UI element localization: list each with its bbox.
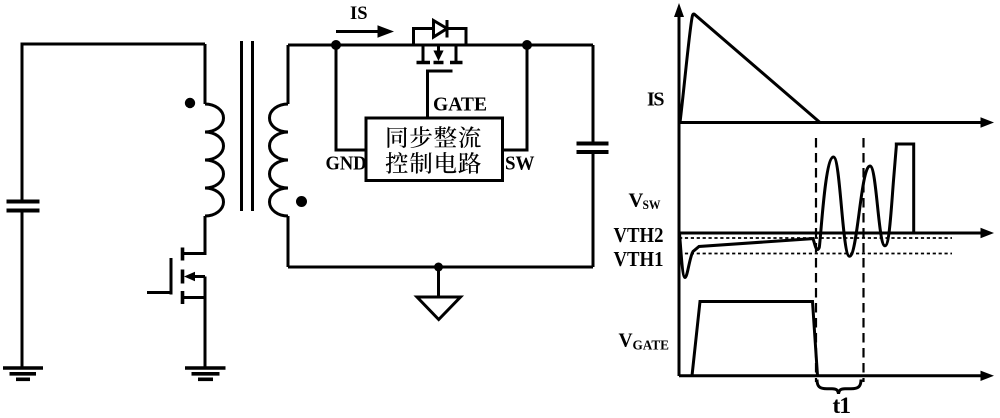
svg-text:VTH1: VTH1 — [614, 247, 664, 271]
wire primary to Q1 drain — [184, 216, 205, 254]
diode D1 cathode bar — [446, 20, 449, 38]
svg-text:V: V — [629, 189, 644, 211]
transistor Q2 right contact — [455, 45, 458, 62]
curve IS waveform — [680, 14, 820, 122]
transistor Q1 source bar — [184, 296, 205, 299]
arrowhead axis top — [674, 3, 684, 17]
wire GND pin — [336, 45, 366, 150]
node B junction right — [522, 40, 532, 50]
diode D1 risers and bypass — [414, 29, 467, 46]
transformer T1 primary winding — [205, 104, 224, 216]
svg-text:GATE: GATE — [633, 338, 670, 353]
ground Q1 source (earth) — [185, 366, 226, 370]
wire left rail lower — [21, 211, 24, 368]
line VTH1 threshold dotted — [679, 253, 952, 255]
line dashed vertical t1 left — [815, 138, 817, 382]
transistor Q1 gate bar — [170, 258, 173, 295]
svg-text:VTH2: VTH2 — [614, 223, 664, 247]
wire top bus secondary — [288, 44, 593, 47]
axis VSW horizontal — [679, 232, 983, 235]
curve VSW waveform — [680, 144, 914, 278]
node C junction bottom — [434, 263, 443, 272]
block U1 control circuit box — [366, 118, 503, 181]
svg-text:IS: IS — [647, 88, 665, 110]
wire Q1 source to ground — [204, 277, 207, 369]
transistor Q2 channel dashes — [417, 61, 463, 65]
svg-text:SW: SW — [505, 153, 535, 175]
transformer T1 secondary winding — [270, 104, 289, 216]
ground output stub — [437, 267, 440, 297]
wire SW pin — [503, 45, 528, 150]
transistor Q1 arrowhead — [184, 272, 195, 282]
wire bottom bus — [288, 266, 593, 269]
node dot primary phase — [185, 98, 195, 108]
transistor Q2 body arrow stem — [437, 45, 440, 52]
brace t1 — [817, 380, 861, 394]
curve VGATE waveform — [692, 302, 818, 376]
transistor Q2 gate bar — [426, 70, 453, 73]
wire secondary bottom — [287, 216, 290, 267]
transistor Q1 body arrow line — [192, 275, 205, 278]
wire Q2 gate to U1 — [426, 71, 429, 118]
capacitor C1 plates — [7, 202, 40, 211]
transformer core — [242, 41, 253, 211]
transistor Q2 arrowhead — [433, 51, 443, 62]
line VTH2 threshold dotted — [679, 237, 952, 239]
node dot secondary phase — [296, 196, 307, 207]
ground output triangle — [417, 297, 461, 320]
arrowhead axis VSW — [981, 228, 995, 238]
arrow IS current — [336, 30, 379, 33]
svg-text:V: V — [619, 331, 633, 352]
wire Q1 gate lead — [147, 291, 171, 294]
transistor Q1 channel dashes — [181, 248, 185, 305]
waveform axes — [679, 8, 983, 376]
ground left (earth) — [3, 366, 43, 370]
svg-text:t1: t1 — [833, 393, 852, 418]
svg-text:IS: IS — [350, 4, 368, 24]
node A junction left — [331, 40, 341, 50]
label U1 text line1 — [388, 126, 481, 148]
axis VGATE horizontal — [679, 374, 983, 377]
svg-text:SW: SW — [643, 197, 661, 212]
wire secondary top — [287, 45, 290, 104]
wire top left rail — [22, 44, 205, 47]
transistor Q2 left contact — [422, 45, 425, 62]
svg-text:GATE: GATE — [433, 94, 487, 116]
arrowhead IS — [378, 25, 395, 37]
wire left rail upper — [21, 44, 24, 201]
capacitor C2 output — [592, 45, 595, 143]
axis vertical shared — [678, 8, 681, 376]
svg-text:GND: GND — [326, 153, 367, 175]
wire primary top — [204, 44, 207, 104]
arrowhead axis IS — [981, 117, 995, 127]
axis IS horizontal — [679, 121, 983, 124]
line dashed vertical t1 right — [862, 138, 864, 382]
label U1 text line2 — [386, 152, 481, 174]
diode D1 triangle — [434, 21, 448, 38]
arrowhead axis VGATE — [981, 371, 995, 381]
